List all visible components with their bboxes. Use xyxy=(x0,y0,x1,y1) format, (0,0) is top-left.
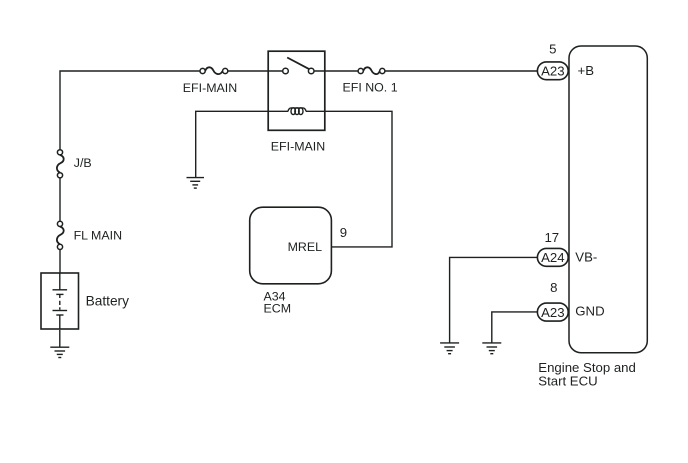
fusible link J/B xyxy=(57,150,64,178)
svg-text:17: 17 xyxy=(544,230,559,245)
svg-text:5: 5 xyxy=(549,41,556,56)
relay EFI-MAIN coil xyxy=(288,108,306,115)
svg-text:EFI NO. 1: EFI NO. 1 xyxy=(343,80,398,94)
fuse EFI NO. 1 (fusible link symbol) xyxy=(358,67,385,74)
svg-text:ECM: ECM xyxy=(264,302,292,316)
svg-text:9: 9 xyxy=(340,225,347,240)
wire FL MAIN to battery xyxy=(59,250,61,274)
fusible link FL MAIN xyxy=(57,221,64,249)
wire J/B to FL MAIN xyxy=(59,178,61,221)
svg-text:+B: +B xyxy=(578,63,595,78)
label Engine Stop and Start ECU xyxy=(538,360,636,389)
svg-text:A24: A24 xyxy=(541,250,564,265)
wire relay coil to ECM MREL pin 9 xyxy=(306,111,392,247)
ECM MREL box xyxy=(250,207,332,284)
svg-text:A23: A23 xyxy=(541,305,564,320)
ground VB- xyxy=(440,343,459,354)
ground relay coil xyxy=(187,178,205,189)
svg-text:MREL: MREL xyxy=(288,240,323,254)
wire relay coil left segment to ground riser xyxy=(196,111,289,177)
svg-text:EFI-MAIN: EFI-MAIN xyxy=(271,140,325,154)
wire battery negative to ground xyxy=(59,330,61,347)
relay EFI-MAIN box xyxy=(268,51,325,130)
wire EFI-MAIN fuse to relay left contact xyxy=(228,70,283,72)
relay EFI-MAIN switch contacts and blade xyxy=(283,58,314,74)
svg-text:FL MAIN: FL MAIN xyxy=(74,228,122,242)
ground battery xyxy=(50,347,69,357)
connector A24 (VB- terminal) xyxy=(537,248,568,266)
wire relay right contact to EFI NO. 1 fuse xyxy=(314,70,358,72)
svg-text:VB-: VB- xyxy=(575,249,597,264)
svg-text:Start ECU: Start ECU xyxy=(538,374,597,389)
connector A23 (GND terminal) xyxy=(537,303,568,321)
svg-text:A23: A23 xyxy=(541,64,564,79)
connector A23 (+B terminal) xyxy=(537,62,568,80)
svg-text:Battery: Battery xyxy=(86,293,130,308)
wire battery positive riser and top run to EFI-MAIN fuse xyxy=(60,71,200,150)
fuse EFI-MAIN (fusible link symbol) xyxy=(200,67,228,74)
svg-text:Engine Stop and: Engine Stop and xyxy=(538,360,636,375)
wire GND terminal to ground xyxy=(492,312,538,343)
battery xyxy=(41,273,79,329)
wire EFI NO. 1 fuse to ECU +B terminal A23 xyxy=(385,70,538,72)
svg-text:GND: GND xyxy=(575,304,604,319)
svg-text:J/B: J/B xyxy=(74,156,92,170)
ECU Engine Stop and Start box xyxy=(569,46,647,353)
wire VB- terminal to ground xyxy=(450,257,538,342)
ground GND xyxy=(482,343,501,354)
svg-text:8: 8 xyxy=(550,280,557,295)
svg-text:EFI-MAIN: EFI-MAIN xyxy=(183,81,237,95)
